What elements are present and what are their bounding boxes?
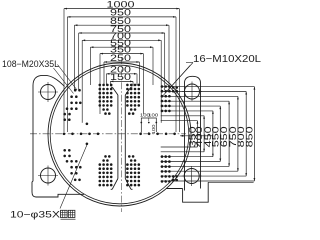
dimension 450 right <box>212 111 214 157</box>
bolt hole grid clusters M20 <box>99 84 102 87</box>
phi35 holes on centerline <box>63 133 66 136</box>
dimension 700 top <box>82 39 161 41</box>
horizontal centerline <box>30 133 186 135</box>
foot top edge line <box>208 181 253 183</box>
mounting foot <box>183 182 209 202</box>
slot right wall <box>124 95 126 179</box>
top-right ear dome <box>185 76 201 190</box>
top-left ear outline <box>32 75 65 197</box>
dimension 350 right <box>196 121 198 147</box>
tie-bar hole TL <box>41 85 56 100</box>
dimension 800 right <box>245 92 247 177</box>
bottom-left edge <box>36 194 84 197</box>
dimension 850 right <box>253 87 255 181</box>
svg-text:10−φ35X: 10−φ35X <box>10 210 61 221</box>
dimension 400 right <box>203 116 205 152</box>
dimension 550 top <box>90 46 153 48</box>
svg-text:16−M10X20L: 16−M10X20L <box>193 54 261 65</box>
dimension 1000 top <box>64 8 179 10</box>
bottom-right edge <box>166 188 183 190</box>
dimension 650 right <box>228 101 230 166</box>
pitch dim 100x100 <box>141 118 156 132</box>
svg-text:100: 100 <box>148 113 158 119</box>
dimension 750 top <box>79 32 165 34</box>
right column holes M10 <box>161 85 164 88</box>
dimension 350 top <box>100 53 143 55</box>
dimension 750 right <box>237 96 239 171</box>
tie-bar hole TR <box>185 84 200 99</box>
svg-text:100: 100 <box>151 124 157 134</box>
slot flare caps <box>111 86 113 88</box>
dimension 250 top <box>104 61 139 63</box>
svg-text:150: 150 <box>110 72 131 82</box>
platen outer circle <box>48 63 191 206</box>
dimension 150 top <box>110 80 133 82</box>
tie-bar hole BR <box>184 169 199 184</box>
dimension 200 top <box>106 73 137 75</box>
dimension 550 right <box>219 106 221 161</box>
dimension 850 top <box>74 24 169 26</box>
svg-text:850: 850 <box>244 126 254 147</box>
slot left wall <box>117 95 119 179</box>
slot bottom flare <box>112 179 118 190</box>
platen inner circle <box>50 65 189 204</box>
phi35 holes off-center <box>86 123 89 126</box>
svg-text:250: 250 <box>110 53 131 63</box>
outer hole clusters M20 <box>63 113 66 116</box>
vertical centerline <box>121 57 123 212</box>
slot top flare <box>112 87 118 95</box>
dimension 950 top <box>67 16 176 18</box>
svg-text:108−M20X35L: 108−M20X35L <box>2 59 59 69</box>
tie-bar hole BL <box>41 168 56 183</box>
